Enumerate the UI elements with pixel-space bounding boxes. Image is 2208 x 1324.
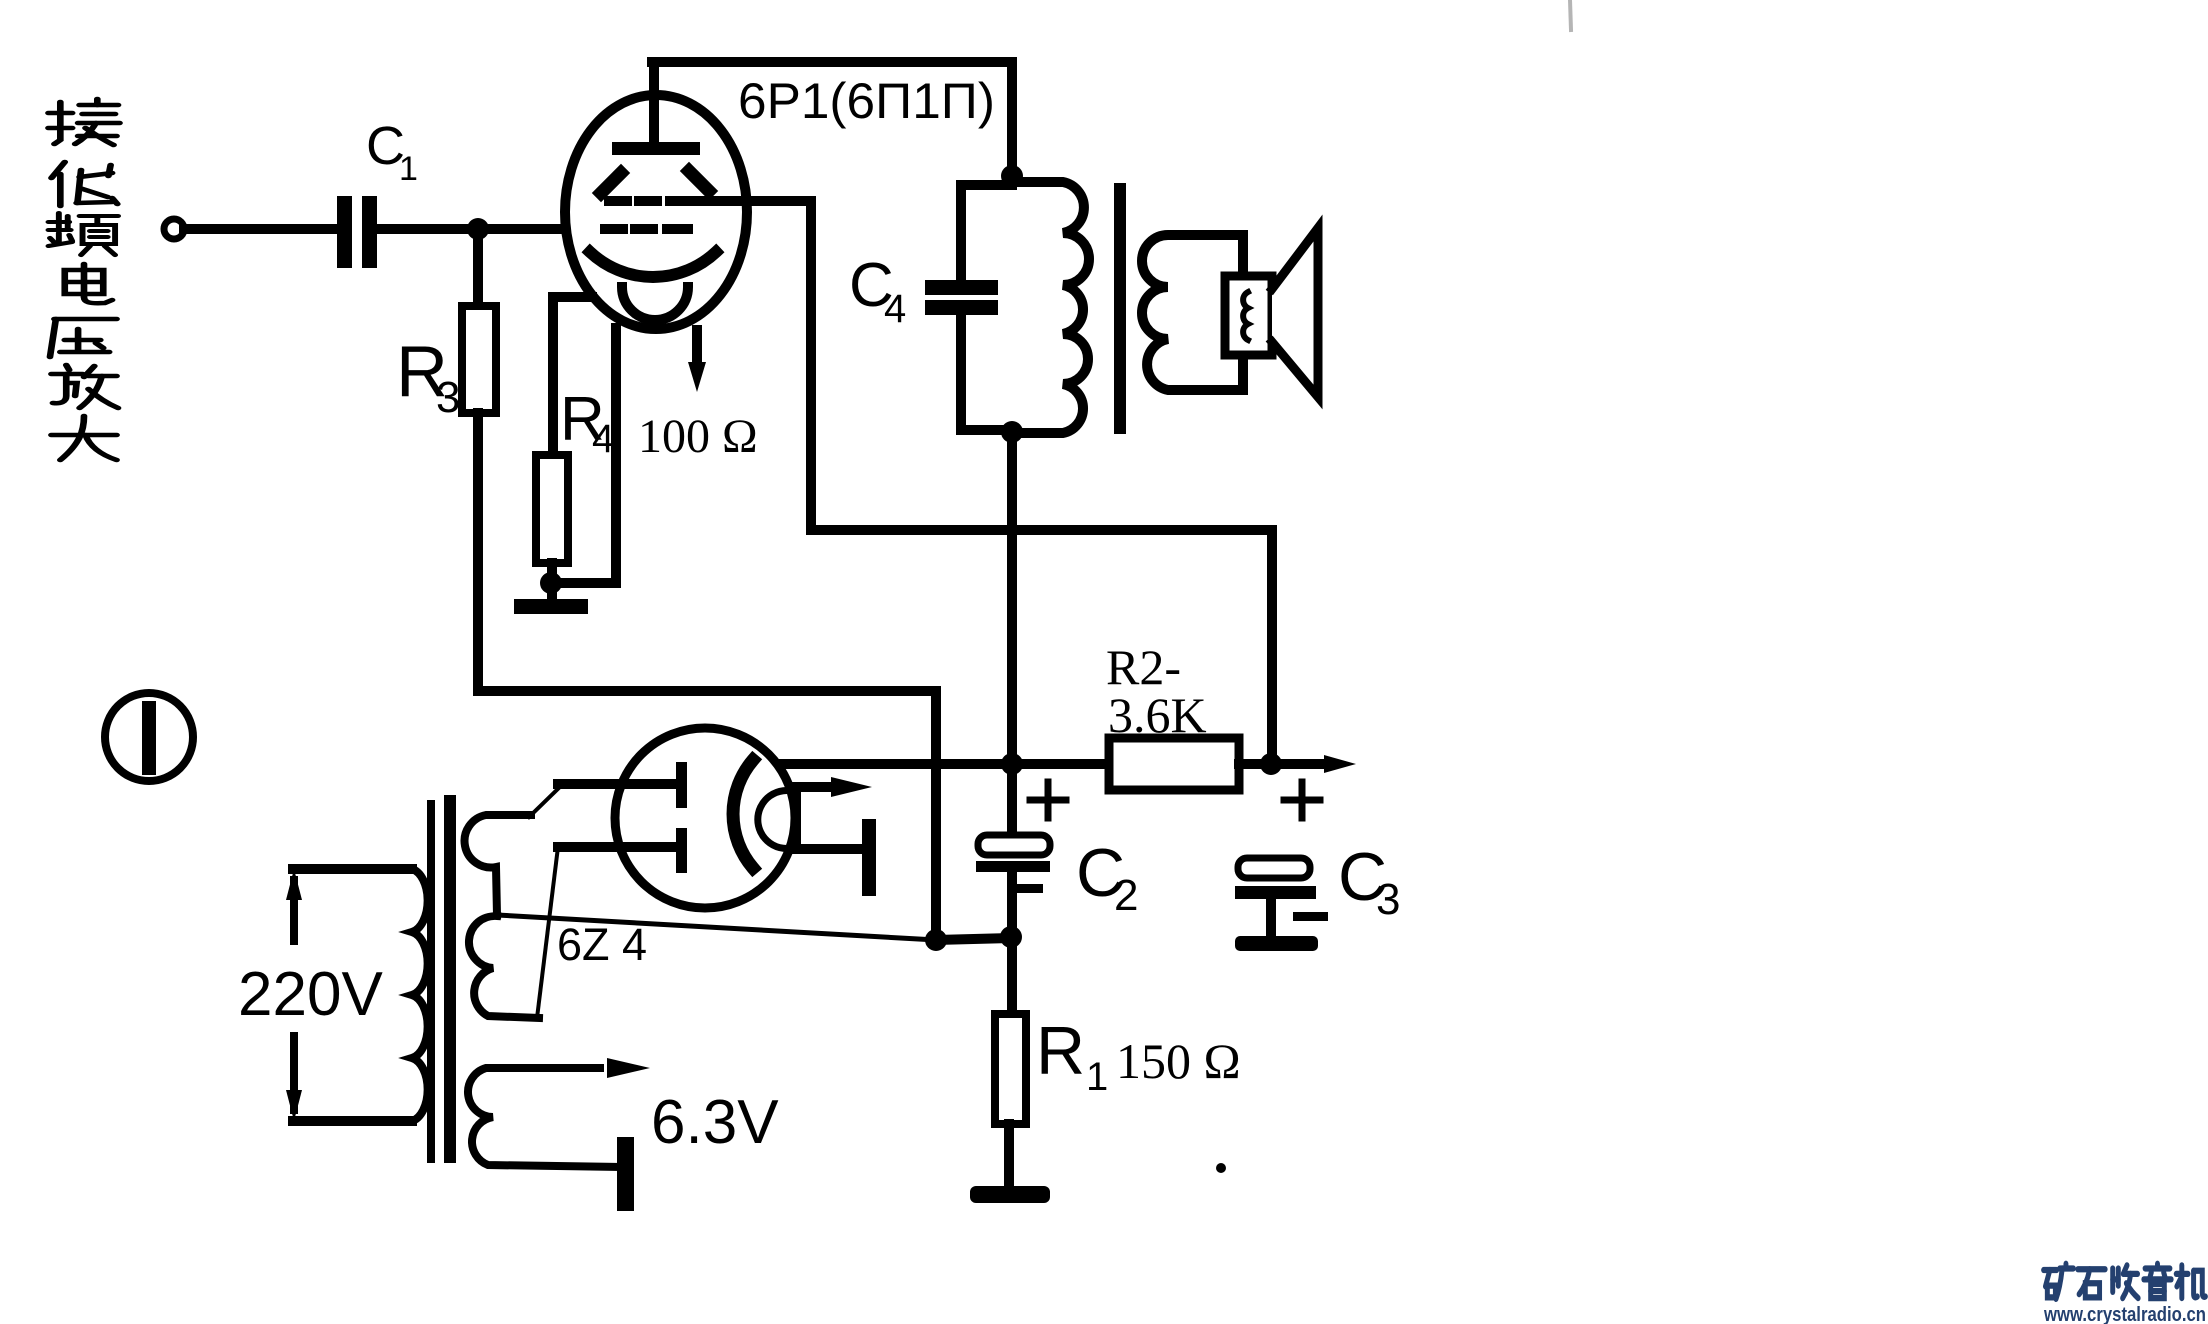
speaker coil squiggle (1243, 292, 1248, 340)
label R4 (560, 385, 614, 461)
capacitor C3 plus sign (1284, 782, 1320, 818)
label 6.3V (651, 1088, 779, 1157)
caption text dian (electric) (65, 264, 112, 303)
watermark logo shou (receive) (2113, 1265, 2138, 1298)
caption text pin (frequency) (48, 213, 118, 255)
V1 heater arc (622, 287, 688, 320)
transformer T2 core bars (427, 800, 435, 1163)
caption text ya (voltage) (50, 319, 117, 357)
wire thin diagonal to HV top (529, 784, 563, 817)
wire R4 bottom to ground (547, 563, 557, 600)
V1 cathode arc (590, 252, 716, 277)
wire R3 bottom long run to B- corner (478, 413, 936, 940)
tube V2 6Z4 envelope (615, 728, 795, 908)
V2 heater lead to chassis (797, 844, 864, 854)
V2 plate leads (558, 779, 676, 789)
transformer T1 secondary winding (1142, 235, 1243, 390)
V1 anode lead (649, 62, 659, 142)
label 150 ohm (1116, 1033, 1241, 1089)
label R3 (396, 332, 460, 422)
label C3 (1338, 839, 1400, 924)
capacitor C4 (925, 280, 998, 315)
label 6P1(6П1П) (738, 73, 995, 129)
ground bar below R1 (970, 1186, 1050, 1203)
node IN input terminal (164, 219, 184, 239)
node R2 left junction dot (1001, 753, 1023, 775)
stray dot mark (1216, 1163, 1226, 1173)
V2 cathode crescent (733, 760, 753, 868)
V1 screen grid dashes (609, 196, 691, 206)
capacitor C3 minus sign (1293, 912, 1328, 921)
label 220V (238, 960, 383, 1029)
V1 anode plate bar (612, 142, 700, 155)
resistor R4 (536, 455, 568, 563)
caption text fang (amplify-1) (51, 365, 118, 408)
caption text di (low) (51, 162, 117, 206)
label R1 (1036, 1013, 1108, 1099)
node OPT top junction dot (1001, 165, 1023, 187)
svg-text:3.6K: 3.6K (1108, 687, 1207, 743)
wire R1 to ground (1004, 1124, 1014, 1190)
caption text jie (connect) (48, 99, 119, 145)
wire V1 beam plate down (556, 328, 616, 583)
svg-text:4: 4 (884, 287, 906, 331)
speaker cone (1272, 228, 1318, 397)
watermark logo yin (sound) (2144, 1264, 2171, 1298)
ground bar below R4 (514, 599, 588, 614)
transformer T2 primary top lead (293, 864, 412, 874)
transformer T2 heater winding (468, 1068, 618, 1167)
watermark logo kuang (ore) (2044, 1264, 2074, 1299)
transformer T1 core bar (1114, 183, 1126, 434)
resistor R3 (462, 306, 496, 413)
wire thin diagonal to HV bottom (537, 847, 558, 1018)
wire B- run to C2 minus node (936, 938, 1011, 940)
svg-text:100 Ω: 100 Ω (638, 410, 758, 463)
svg-text:6.3V: 6.3V (651, 1088, 779, 1157)
chassis bar below heater winding (617, 1137, 634, 1211)
node R4 ground junction dot (540, 572, 562, 594)
svg-text:6Z 4: 6Z 4 (557, 919, 647, 970)
wire top rail anode to OPT (652, 62, 1012, 176)
capacitor C1 (337, 196, 377, 268)
node C2- junction dot (1000, 926, 1022, 948)
wire C4 bottom branch (961, 314, 1012, 430)
svg-text:6P1(6Π1Π): 6P1(6Π1Π) (738, 73, 995, 129)
node OPT bottom junction dot (1001, 421, 1023, 443)
svg-text:4: 4 (592, 417, 614, 461)
speaker voice coil box (1225, 276, 1272, 355)
node A junction dot (467, 218, 489, 240)
transformer T2 primary winding (412, 869, 428, 1121)
V2 anode plate top (676, 762, 687, 808)
capacitor C2 plus sign (1030, 782, 1066, 818)
svg-text:220V: 220V (238, 960, 383, 1029)
220V dimension arrow top (290, 880, 298, 941)
wire C3 to ground (1266, 899, 1276, 938)
V1 control grid dashes (605, 224, 688, 234)
capacitor C2 (978, 835, 1050, 855)
wire HV center tap sloped line (497, 915, 936, 940)
V2 cathode cylinder (758, 791, 796, 849)
figure number circled 1 (105, 693, 193, 781)
watermark logo ji (machine) (2176, 1265, 2205, 1298)
6.3V arrow (607, 1058, 650, 1078)
wire B+ output arrow (1271, 759, 1330, 769)
220V dimension arrow bottom (290, 1036, 298, 1110)
wire V1 cathode to R4 top (553, 297, 592, 458)
wire secondary to speaker stubs (1238, 235, 1248, 278)
wire node to R1 (1007, 937, 1017, 1016)
svg-text:150 Ω: 150 Ω (1116, 1033, 1241, 1089)
transformer T2 HV secondary winding (465, 815, 531, 915)
svg-text:1: 1 (1086, 1055, 1108, 1099)
svg-text:www.crystalradio.cn: www.crystalradio.cn (2043, 1304, 2206, 1324)
svg-text:3: 3 (436, 373, 460, 422)
svg-text:1: 1 (399, 150, 418, 188)
label C2 (1076, 835, 1138, 920)
V1 heater lead with down arrow (692, 330, 702, 368)
V1 beam hook left (601, 173, 621, 193)
label 100 ohm (638, 410, 758, 463)
svg-text:3: 3 (1376, 875, 1400, 924)
wire 6Z4 cathode node to R2 (777, 759, 1109, 769)
wire input to C1 (184, 224, 338, 234)
transformer T1 primary winding (1012, 182, 1089, 433)
wire C2 to node (1007, 872, 1017, 937)
wire C1 to grid node (377, 224, 478, 234)
transformer T2 primary bottom lead (293, 1116, 412, 1126)
capacitor C3 (1238, 858, 1310, 878)
watermark logo shi (stone) (2078, 1269, 2105, 1297)
V1 beam hook right (689, 171, 709, 191)
wire screen feedback path (691, 201, 1272, 764)
node B- junction dot (925, 929, 947, 951)
V2 cathode output arrow (790, 782, 838, 792)
label C4 (849, 251, 906, 331)
label 6Z4 (557, 919, 647, 970)
resistor R1 (995, 1014, 1026, 1124)
capacitor C2 minus sign (1017, 884, 1043, 893)
tube V1 6P1 envelope (565, 95, 747, 329)
scan artifact line top right (1570, 0, 1571, 30)
resistor R2 (1109, 738, 1239, 790)
label C1 (366, 116, 418, 188)
wire node A to 6P1 grid (478, 224, 612, 234)
wire R2 right to node (1239, 759, 1271, 769)
label R2 value (1106, 639, 1207, 743)
wire main B+ vertical (1007, 432, 1017, 835)
wire node A down to R3 (473, 229, 483, 310)
node R2 right junction dot (1260, 753, 1282, 775)
V2 anode plate bottom (676, 828, 687, 873)
svg-text:2: 2 (1114, 871, 1138, 920)
wire C4 top branch (961, 185, 1012, 281)
ground bar below C3 (1235, 936, 1318, 951)
svg-text:R: R (1036, 1013, 1085, 1089)
caption text da (big) (51, 416, 116, 460)
chassis bar near 6Z4 (862, 819, 876, 896)
